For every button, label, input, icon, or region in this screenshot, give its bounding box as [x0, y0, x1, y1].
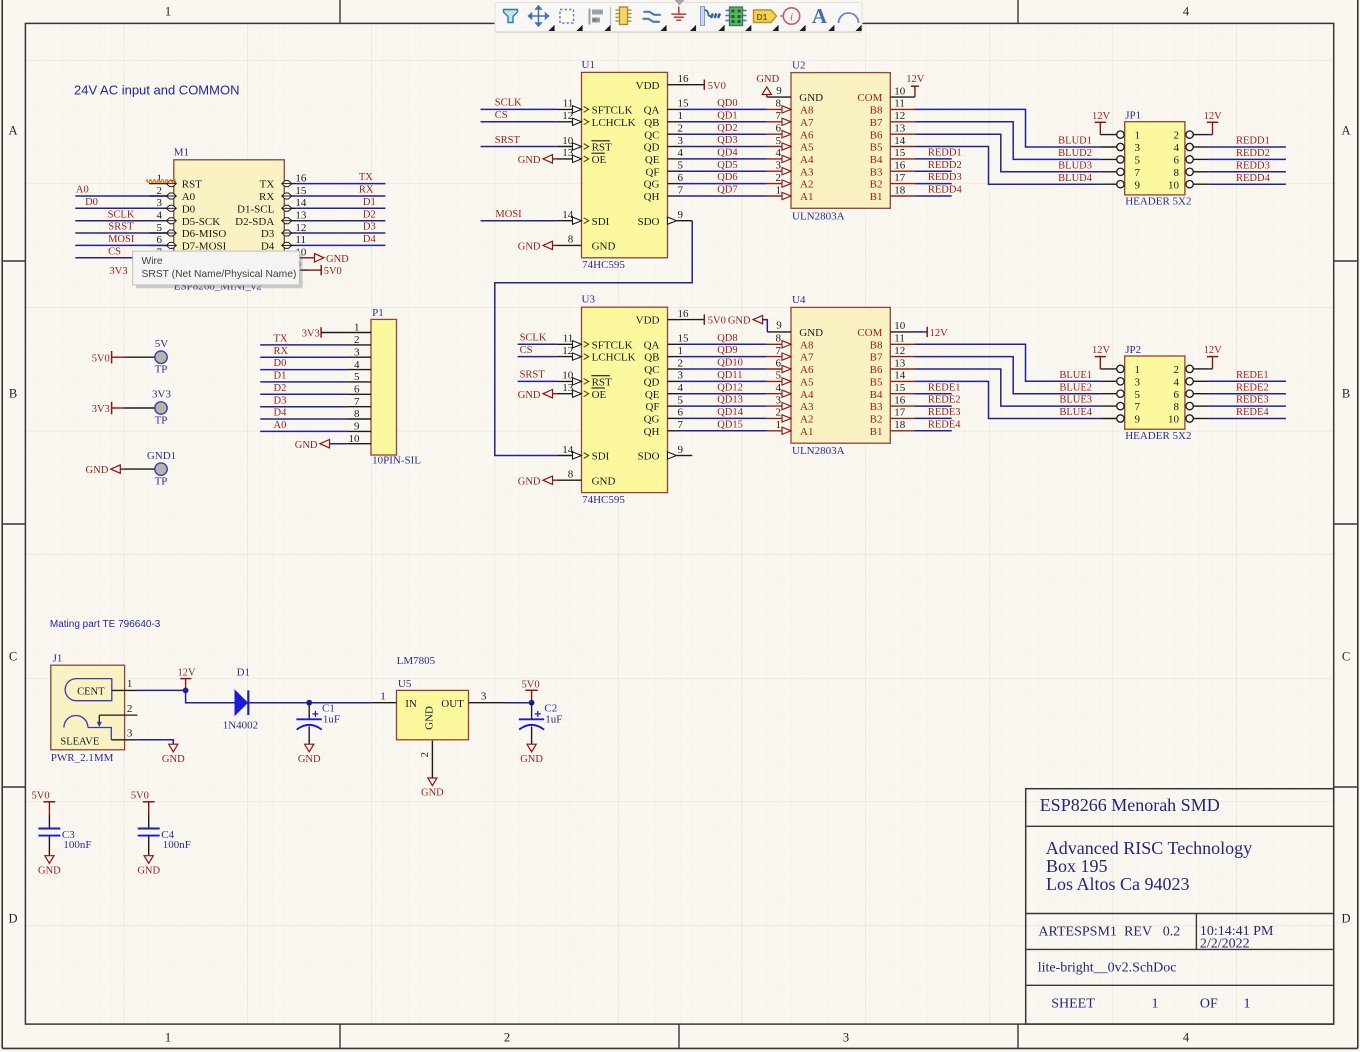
U3 pin 8 GND: [557, 479, 582, 481]
ground symbol at C1: [305, 744, 314, 752]
J1 sleeve contact symbol: [64, 716, 88, 728]
svg-text:10: 10: [1168, 414, 1180, 426]
svg-text:1uF: 1uF: [545, 714, 562, 726]
svg-text:A0: A0: [76, 185, 89, 196]
U4 pin 15 B4: [890, 393, 915, 395]
svg-text:REDD3: REDD3: [928, 172, 962, 183]
svg-text:BLUE1: BLUE1: [1059, 370, 1092, 381]
svg-text:QD11: QD11: [717, 370, 742, 381]
svg-text:8: 8: [568, 234, 574, 246]
wire to test point 3V3: [124, 407, 158, 409]
svg-text:SDO: SDO: [637, 451, 659, 463]
U4 pin 2 A2: [767, 417, 792, 419]
ground symbol at C3: [45, 856, 54, 864]
U3 pin 11 SFTCLK: [557, 343, 582, 345]
svg-text:12V: 12V: [1204, 111, 1223, 122]
U4 pin 6 A6: [767, 368, 792, 370]
svg-text:5V0: 5V0: [522, 680, 540, 691]
M1 pin 8 hidden: [149, 269, 174, 271]
wire net REDE2 at header: [1209, 393, 1286, 395]
svg-text:6: 6: [776, 357, 782, 369]
title block frame: [1026, 789, 1334, 1024]
test point 3V3: [155, 402, 167, 414]
svg-text:3V3: 3V3: [110, 266, 128, 277]
junction dot at C2: [529, 700, 535, 706]
svg-text:Wire: Wire: [142, 256, 163, 267]
U2 pin 5 A5: [767, 146, 792, 148]
U4 pin 13 B6: [890, 368, 915, 370]
svg-text:SFTCLK: SFTCLK: [592, 339, 633, 351]
svg-text:A: A: [812, 4, 828, 28]
svg-text:7: 7: [678, 419, 684, 431]
svg-text:GND: GND: [162, 754, 185, 765]
svg-text:9: 9: [1135, 414, 1141, 426]
toolbar panel: [495, 3, 862, 33]
wire C1 to ground: [308, 727, 310, 745]
svg-text:SRST: SRST: [520, 370, 546, 381]
wire net QD11: [680, 380, 767, 382]
svg-text:100nF: 100nF: [63, 839, 91, 851]
svg-text:7: 7: [1135, 401, 1141, 413]
U4 pin 16 B3: [890, 405, 915, 407]
svg-text:GND: GND: [38, 865, 61, 876]
power port 5V0 at U5 output: [525, 689, 537, 691]
svg-text:QB: QB: [644, 117, 659, 129]
svg-text:4: 4: [1174, 376, 1180, 388]
toolbar icon arc: [839, 13, 859, 23]
svg-text:TP: TP: [155, 364, 168, 376]
svg-text:D: D: [1341, 912, 1350, 926]
power port GND at U3 row 8: [543, 390, 553, 398]
wire net RX from M1: [297, 195, 386, 197]
JP1 pin 6: [1193, 158, 1209, 160]
svg-text:12V: 12V: [930, 328, 949, 339]
wire net REDE1 at ULN side: [915, 393, 952, 395]
svg-text:A3: A3: [800, 401, 814, 413]
wire net REDD1 at ULN side: [915, 158, 952, 160]
wire net SCLK to M1: [75, 220, 165, 222]
power port 12V at J1: [180, 678, 191, 680]
header JP1 body: [1125, 122, 1185, 195]
connector P1 body: [371, 319, 397, 455]
svg-text:A4: A4: [800, 154, 814, 166]
wire net A0 to M1: [75, 195, 165, 197]
svg-text:14: 14: [894, 370, 906, 382]
svg-text:D2: D2: [363, 209, 376, 220]
JP1 pin 5: [1100, 158, 1116, 160]
svg-text:A0: A0: [182, 191, 196, 203]
JP2 pin 5: [1100, 393, 1116, 395]
svg-text:JP2: JP2: [1125, 344, 1141, 356]
svg-text:D3: D3: [261, 228, 275, 240]
M1 pin 11 D4: [284, 244, 296, 246]
svg-text:74HC595: 74HC595: [582, 259, 625, 271]
svg-text:B4: B4: [870, 389, 883, 401]
J1 switch arrow: [99, 714, 137, 716]
svg-text:REDE1: REDE1: [1236, 370, 1269, 381]
wire net BLUE1: [915, 344, 1100, 381]
svg-text:1: 1: [1152, 996, 1159, 1011]
wire net REDE2 at ULN side: [915, 405, 952, 407]
U1 pin 12 LCHCLK: [557, 121, 582, 123]
power port 5V0 at M1 pin 9: [297, 269, 308, 271]
svg-text:6: 6: [678, 172, 684, 184]
P1 pin 6: [347, 393, 371, 395]
svg-text:5: 5: [678, 394, 684, 406]
svg-text:A0: A0: [274, 420, 287, 431]
power port GND at P1 pin 10: [320, 440, 330, 448]
svg-text:1: 1: [1135, 130, 1141, 142]
toolbar icon move cursor: [529, 6, 549, 26]
svg-text:BLUE3: BLUE3: [1059, 395, 1092, 406]
JP1 pin 2: [1193, 134, 1209, 136]
svg-text:A4: A4: [800, 389, 814, 401]
svg-text:SFTCLK: SFTCLK: [592, 105, 633, 117]
test point GND1: [155, 463, 167, 475]
M1 pin 6 D7-MOSI: [149, 244, 174, 246]
wire net SRST to U3: [518, 380, 557, 382]
svg-text:ESP8266 Menorah SMD: ESP8266 Menorah SMD: [1040, 795, 1220, 815]
svg-text:QF: QF: [645, 166, 659, 178]
svg-text:GND: GND: [520, 754, 543, 765]
wire net REDE3 at header: [1209, 405, 1286, 407]
JP1 pin 9: [1100, 183, 1116, 185]
svg-text:5V0: 5V0: [131, 790, 149, 801]
toolbar icon alignment: [589, 9, 604, 25]
svg-text:9: 9: [1135, 179, 1141, 191]
wire net D3 to P1 pin 7: [260, 406, 347, 408]
JP2 pin 2: [1193, 368, 1209, 370]
svg-text:GND: GND: [518, 476, 541, 487]
M1 pin 9 power: [284, 269, 296, 271]
capacitor C1 1uF: [308, 703, 310, 720]
svg-text:HEADER 5X2: HEADER 5X2: [1125, 196, 1191, 208]
U4 pin 7 A7: [767, 356, 792, 358]
wire net SRST to U1: [481, 146, 557, 148]
M1 pin 16 TX: [284, 183, 296, 185]
U4 pin 17 B2: [890, 417, 915, 419]
svg-text:11: 11: [563, 98, 574, 110]
svg-text:1: 1: [678, 345, 684, 357]
svg-text:4: 4: [1183, 5, 1190, 19]
svg-text:3: 3: [1135, 376, 1141, 388]
svg-text:GND: GND: [421, 788, 444, 799]
svg-text:BLUD1: BLUD1: [1058, 136, 1092, 147]
svg-text:GND1: GND1: [147, 450, 176, 462]
svg-text:A5: A5: [800, 377, 814, 389]
svg-text:RST: RST: [592, 142, 612, 154]
JP2 pin 1: [1100, 368, 1116, 370]
wire U1 SDO to U3 SDI: [495, 221, 692, 456]
svg-text:7: 7: [678, 184, 684, 196]
svg-text:1: 1: [165, 1031, 171, 1045]
svg-text:P1: P1: [372, 307, 384, 319]
svg-text:HEADER 5X2: HEADER 5X2: [1125, 430, 1191, 442]
svg-text:5V: 5V: [155, 338, 169, 350]
svg-text:QH: QH: [644, 426, 660, 438]
svg-text:QA: QA: [644, 105, 660, 117]
svg-text:QE: QE: [645, 389, 660, 401]
junction dot 12V rail: [183, 688, 189, 694]
svg-text:D0: D0: [85, 197, 98, 208]
svg-text:12: 12: [894, 345, 905, 357]
svg-text:GND: GND: [756, 74, 779, 85]
U5 pin 1: [372, 702, 397, 704]
U5 pin 2: [431, 741, 433, 778]
M1 pin 2 A0: [149, 195, 174, 197]
U5 pin 3: [469, 702, 506, 704]
svg-text:SHEET: SHEET: [1051, 996, 1095, 1011]
svg-text:74HC595: 74HC595: [582, 494, 625, 506]
svg-text:A5: A5: [800, 142, 814, 154]
power port 12V left of JP2: [1095, 356, 1106, 358]
svg-text:B7: B7: [870, 117, 883, 129]
svg-text:TP: TP: [155, 476, 168, 488]
JP2 pin 8: [1193, 405, 1209, 407]
svg-text:16: 16: [678, 308, 690, 320]
svg-text:QD8: QD8: [717, 333, 737, 344]
svg-text:ULN2803A: ULN2803A: [792, 210, 845, 222]
compile error marker on M1 pin 1: [146, 180, 176, 183]
svg-text:10: 10: [349, 433, 361, 445]
svg-text:GND: GND: [728, 316, 751, 327]
svg-text:U4: U4: [792, 294, 806, 306]
J1 center contact symbol: [65, 679, 112, 701]
svg-text:D2: D2: [274, 383, 287, 394]
JP1 pin 3: [1100, 146, 1116, 148]
svg-text:2: 2: [127, 703, 132, 715]
svg-text:C: C: [9, 650, 17, 664]
zone ticks left: [2, 260, 25, 262]
svg-text:12V: 12V: [1204, 345, 1223, 356]
U4 pin 5 A5: [767, 380, 792, 382]
svg-text:16: 16: [894, 394, 906, 406]
wire net REDE3 at ULN side: [915, 417, 952, 419]
svg-text:14: 14: [562, 444, 574, 456]
svg-text:GND: GND: [295, 440, 318, 451]
wire net QD4: [680, 158, 767, 160]
wire net QD14: [680, 417, 767, 419]
ground symbol at U5: [428, 778, 437, 786]
ground symbol at C4: [144, 856, 153, 864]
svg-text:A8: A8: [800, 339, 814, 351]
U2 pin 11 B8: [890, 108, 915, 110]
test point 5V: [155, 351, 167, 363]
svg-text:CS: CS: [495, 110, 508, 121]
svg-text:QF: QF: [645, 401, 659, 413]
svg-text:3: 3: [481, 690, 487, 702]
P1 pin 7: [347, 406, 371, 408]
toolbar icon wire: [643, 12, 661, 22]
power port GND at U2 pin 9: [762, 87, 771, 95]
M1 pin 4 D5-SCK: [149, 220, 174, 222]
svg-text:13: 13: [562, 147, 574, 159]
U1 pin 14 SDI: [557, 220, 582, 222]
U2 pin 18 B1: [890, 195, 915, 197]
svg-text:9: 9: [776, 85, 782, 97]
header JP2 body: [1125, 356, 1185, 429]
svg-text:QD0: QD0: [717, 98, 737, 109]
svg-text:13: 13: [295, 210, 307, 222]
P1 pin 8: [347, 418, 371, 420]
wire C4 to ground: [148, 836, 150, 856]
J1 pin 3: [111, 739, 137, 741]
wire D1 to C1 junction: [248, 702, 309, 704]
wire net QD10: [680, 368, 767, 370]
svg-text:SLEAVE: SLEAVE: [60, 737, 99, 748]
svg-text:0.2: 0.2: [1163, 925, 1181, 940]
U2 pin 13 B6: [890, 133, 915, 135]
power port 12V at U4 pin 10: [890, 331, 915, 333]
svg-text:GND: GND: [799, 92, 823, 104]
U4 pin 11 B8: [890, 343, 915, 345]
wire net D3 from M1: [297, 232, 386, 234]
svg-text:2/2/2022: 2/2/2022: [1200, 937, 1250, 952]
svg-text:A6: A6: [800, 129, 814, 141]
svg-text:11: 11: [894, 98, 905, 110]
svg-text:16: 16: [894, 160, 906, 172]
svg-text:U5: U5: [398, 678, 412, 690]
svg-text:5: 5: [1135, 155, 1141, 167]
svg-text:REDD2: REDD2: [928, 160, 962, 171]
svg-text:REDD4: REDD4: [928, 185, 963, 196]
svg-text:OUT: OUT: [441, 698, 464, 710]
U4 pin 8 A8: [767, 343, 792, 345]
svg-text:9: 9: [678, 444, 684, 456]
svg-text:LCHCLK: LCHCLK: [592, 117, 636, 129]
svg-text:REDD3: REDD3: [1236, 160, 1270, 171]
connector J1 PWR_2.1MM body: [51, 665, 125, 750]
svg-text:ARTESPSM1: ARTESPSM1: [1038, 925, 1117, 940]
svg-text:1uF: 1uF: [323, 714, 340, 726]
wire net QD0: [680, 108, 767, 110]
wire net BLUD2: [915, 122, 1100, 160]
driver U2 ULN2803A body: [791, 73, 890, 209]
svg-text:15: 15: [894, 147, 906, 159]
wire net QD9: [680, 356, 767, 358]
svg-text:REDD1: REDD1: [928, 148, 962, 159]
svg-text:CS: CS: [520, 345, 533, 356]
svg-text:QC: QC: [644, 364, 659, 376]
M1 pin 15 RX: [284, 195, 296, 197]
wire C2 to ground: [531, 727, 533, 745]
svg-text:SCLK: SCLK: [520, 333, 547, 344]
svg-text:15: 15: [678, 98, 690, 110]
U2 pin 12 B7: [890, 121, 915, 123]
svg-text:3: 3: [157, 197, 163, 209]
svg-text:MOSI: MOSI: [495, 209, 522, 220]
svg-text:D1: D1: [363, 197, 376, 208]
svg-text:2: 2: [354, 334, 360, 346]
svg-text:3: 3: [127, 728, 133, 740]
wire net CS to M1: [75, 257, 165, 259]
wire net QD1: [680, 121, 767, 123]
wire net BLUD4: [915, 147, 1100, 185]
M1 pin 7 hidden: [149, 257, 174, 259]
svg-text:3V3: 3V3: [152, 389, 171, 401]
wire net SRST to M1: [75, 232, 165, 234]
power port 12V left of JP1: [1095, 121, 1106, 123]
svg-text:REDE4: REDE4: [1236, 407, 1269, 418]
svg-text:10: 10: [1168, 179, 1180, 191]
tooltip box: [133, 251, 300, 285]
svg-text:D1-SCL: D1-SCL: [237, 203, 275, 215]
wire J1 pin3 to GND: [137, 740, 173, 744]
svg-text:15: 15: [295, 185, 307, 197]
svg-text:TX: TX: [260, 179, 275, 191]
toolbar icon no-ERC marker: [783, 8, 799, 24]
svg-text:10: 10: [894, 320, 906, 332]
wire net 3V3 to M1 pin 8: [134, 269, 166, 271]
M1 pin 13 D2-SDA: [284, 220, 296, 222]
svg-text:GND: GND: [518, 242, 541, 253]
svg-text:4: 4: [157, 210, 163, 222]
U1 pin 10 RST: [557, 146, 582, 148]
svg-text:5: 5: [1135, 389, 1141, 401]
U2 pin 2 A2: [767, 183, 792, 185]
svg-text:1: 1: [1244, 996, 1251, 1011]
M1 pin 12 D3: [284, 232, 296, 234]
wire GND from U3 VDD row to U4 pin 9: [753, 315, 763, 323]
svg-text:REDE2: REDE2: [928, 395, 961, 406]
wire net D4 to P1 pin 8: [260, 418, 347, 420]
module M1 ESP8266_MINI_v2 body: [174, 160, 284, 278]
svg-text:17: 17: [894, 172, 906, 184]
svg-text:10: 10: [562, 135, 574, 147]
capacitor C4 100nF: [148, 815, 150, 829]
svg-text:B1: B1: [870, 426, 883, 438]
svg-text:6: 6: [776, 123, 782, 135]
svg-text:12: 12: [295, 222, 306, 234]
svg-text:BLUD2: BLUD2: [1058, 148, 1092, 159]
wire junction to diode D1: [186, 690, 235, 702]
svg-text:SRST: SRST: [108, 222, 134, 233]
svg-text:TX: TX: [359, 172, 373, 183]
svg-text:4: 4: [776, 382, 782, 394]
U2 pin 15 B4: [890, 158, 915, 160]
svg-text:B1: B1: [870, 191, 883, 203]
JP2 pin 3: [1100, 380, 1116, 382]
svg-text:2: 2: [678, 357, 684, 369]
svg-text:A: A: [8, 124, 17, 138]
svg-text:A7: A7: [800, 352, 814, 364]
svg-text:BLUD4: BLUD4: [1058, 173, 1093, 184]
svg-text:Los Altos Ca 94023: Los Altos Ca 94023: [1046, 874, 1190, 894]
svg-text:LM7805: LM7805: [397, 655, 436, 667]
svg-text:D1: D1: [237, 666, 250, 678]
svg-text:OE: OE: [592, 389, 607, 401]
JP2 pin 7: [1100, 405, 1116, 407]
svg-text:6: 6: [354, 384, 360, 396]
svg-text:12V: 12V: [1092, 111, 1111, 122]
svg-text:13: 13: [894, 123, 906, 135]
svg-text:D6-MISO: D6-MISO: [182, 228, 227, 240]
svg-text:QD: QD: [644, 142, 660, 154]
wire net QD8: [680, 343, 767, 345]
power port GND at U1 row 15: [543, 241, 553, 249]
svg-text:RX: RX: [359, 185, 374, 196]
wire to test point GND1: [124, 468, 158, 470]
U4 pin 4 A4: [767, 393, 792, 395]
wire to test point 5V: [124, 356, 158, 358]
svg-text:QD15: QD15: [717, 419, 743, 430]
svg-text:i: i: [790, 9, 793, 23]
svg-text:D4: D4: [274, 408, 288, 419]
wire net D0 to M1: [75, 207, 165, 209]
svg-text:QD5: QD5: [717, 160, 737, 171]
svg-text:1: 1: [354, 322, 360, 334]
wire net QD12: [680, 393, 767, 395]
